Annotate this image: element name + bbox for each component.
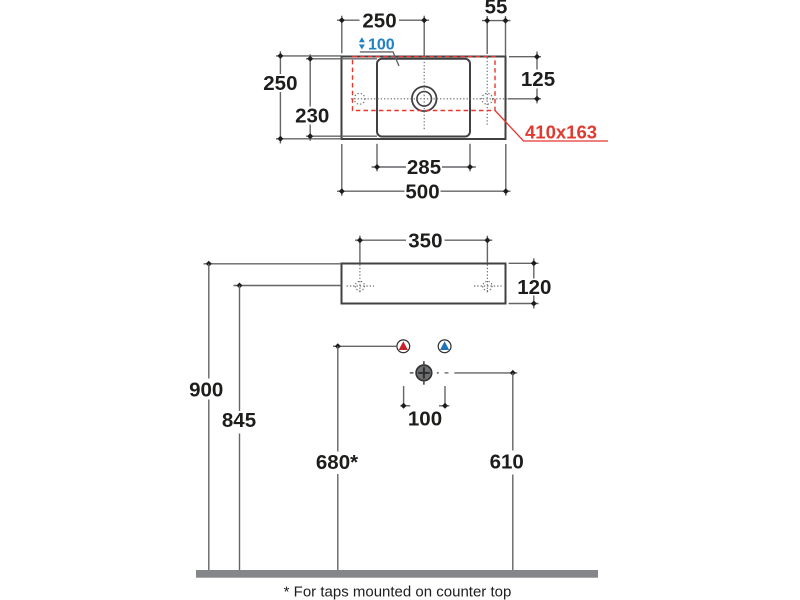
845 vertical dimension line	[222, 286, 256, 571]
hot tap symbol (red triangle)	[397, 340, 410, 353]
extension line above basin left corner	[341, 16, 343, 54]
centerline horizontal top view	[351, 98, 511, 100]
cold tap symbol (blue triangle)	[438, 340, 451, 353]
svg-text:55: 55	[485, 0, 508, 19]
610 leader horizontal	[454, 370, 517, 376]
inner bowl top view	[377, 59, 470, 137]
leader line from 100 to bowl	[360, 52, 399, 66]
svg-text:680*: 680*	[316, 451, 358, 474]
svg-text:845: 845	[222, 409, 256, 432]
dimension 100 between taps	[400, 386, 449, 431]
basin outline top view	[342, 57, 506, 140]
svg-text:350: 350	[408, 229, 442, 252]
svg-text:410x163: 410x163	[525, 121, 597, 142]
900 leader horizontal	[204, 261, 342, 267]
svg-text:100: 100	[368, 37, 395, 54]
extension lines below bowl for 285	[376, 144, 378, 172]
centerline vertical through right hole top view	[486, 58, 488, 127]
extension lines for 55 dim	[486, 16, 488, 54]
dimension 350	[355, 229, 492, 252]
drain fitting front view	[410, 361, 449, 385]
svg-text:285: 285	[407, 156, 441, 179]
tap hole right top view	[482, 93, 493, 104]
extension lines below basin for 500	[341, 144, 343, 196]
680 leader horizontal	[333, 343, 397, 349]
blue 100 label with up-down arrow icon	[359, 37, 395, 54]
centerline vertical through drain top view	[423, 59, 425, 132]
extension line above basin center	[423, 16, 425, 57]
svg-text:100: 100	[408, 408, 442, 431]
dimension 500	[337, 180, 511, 203]
front view tap hole left	[347, 265, 374, 293]
680 vertical dimension line	[316, 346, 358, 570]
svg-text:120: 120	[517, 276, 551, 299]
dimension 120	[517, 258, 551, 308]
dimension 285	[372, 156, 476, 179]
drain double circle top view	[412, 87, 437, 112]
svg-text:250: 250	[263, 72, 297, 95]
front view tap hole right	[474, 265, 502, 293]
tap hole left top view	[354, 93, 365, 104]
dimension 250 left	[263, 51, 297, 143]
dimension 230	[295, 54, 329, 140]
svg-text:230: 230	[295, 105, 329, 128]
front view rectangle	[342, 264, 506, 304]
900 vertical dimension line	[189, 264, 223, 570]
extension lines left of basin for 250 dim	[276, 55, 342, 57]
dimension 55 top right	[482, 0, 511, 24]
svg-text:250: 250	[362, 10, 396, 33]
svg-text:500: 500	[405, 180, 439, 203]
dimension 125 right	[521, 52, 555, 104]
svg-text:610: 610	[490, 451, 524, 474]
extension lines for 230 dim (from bowl)	[306, 58, 377, 60]
red leader line	[495, 111, 608, 142]
svg-text:125: 125	[521, 68, 555, 91]
svg-text:* For taps mounted on counter: * For taps mounted on counter top	[284, 584, 512, 600]
extension lines for 125 dim	[509, 56, 541, 58]
610 vertical dimension line	[490, 373, 524, 570]
extension lines for 350 dim	[359, 236, 361, 263]
extension lines for 120 dim	[509, 262, 539, 264]
floor bar	[196, 570, 598, 578]
red dashed rect 410x163	[353, 57, 496, 111]
845 leader horizontal	[234, 283, 342, 289]
svg-text:900: 900	[189, 378, 223, 401]
dimension 250 top	[337, 10, 429, 33]
